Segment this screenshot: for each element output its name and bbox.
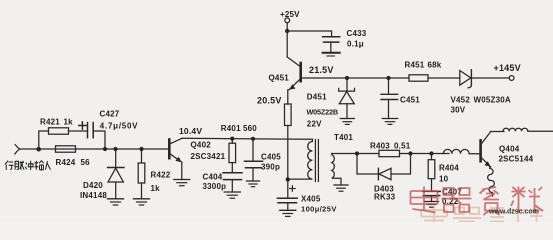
resistor R422 [141,149,143,163]
char 冲 [25,161,33,170]
capacitor C427 [87,123,89,138]
ground (C433) [323,52,340,54]
ground (R422) [134,198,150,200]
node C405 [251,137,255,141]
svg-text:0.1μ: 0.1μ [347,39,364,48]
emitter resistor of Q451 [287,90,289,104]
char 输 [34,161,43,170]
ground (C407) [425,201,439,203]
svg-text:R451: R451 [405,61,425,70]
transistor Q451 [287,57,300,67]
node R422 [139,147,143,151]
svg-text:V452: V452 [451,96,471,105]
node D403 right [408,151,412,155]
capacitor C451 [388,78,390,94]
node input/riser [36,147,41,152]
wire R421 to C427 [69,130,88,132]
diode D420 [115,149,117,168]
resistor R421 [49,128,69,134]
resistor R403 [379,150,400,156]
wire C427 down to rail [93,131,105,149]
capacitor C433 [323,36,340,38]
input connector 行脉冲输入 [15,145,20,154]
terminal +145V [509,76,514,81]
node X405 [286,177,290,181]
svg-text:R404: R404 [439,164,459,173]
svg-text:68k: 68k [428,61,442,70]
wire input rail [20,148,169,150]
char 入 [45,161,50,170]
capacitor C404 [223,172,242,174]
svg-text:1k: 1k [151,184,161,193]
ground (D451) [340,118,354,120]
node C427 riser [103,147,107,151]
wm char2 [442,188,472,212]
svg-text:Q404: Q404 [499,145,520,154]
svg-text:T401: T401 [334,133,353,142]
svg-text:W05Z22B: W05Z22B [307,108,338,117]
wire V452 to +145V [472,77,510,79]
svg-text:C433: C433 [347,29,367,38]
transformer T401 primary [288,139,313,179]
diode V452 [460,71,471,86]
resistor R424 [56,146,76,152]
terminal +25V [285,18,290,23]
wire collector rail of Q402 [182,138,313,139]
capacitor C407 [423,190,440,192]
node D403 left [355,151,359,155]
resistor R401 [231,139,233,144]
svg-text:0.51: 0.51 [394,141,411,150]
ground (C405) [247,180,260,182]
svg-text:56: 56 [81,158,91,167]
node R404 [429,151,433,155]
svg-text:+145V: +145V [494,63,521,73]
ground (Q402 emitter) [174,179,190,181]
inductor (Q404 base) [443,149,479,153]
wm char1 [411,187,438,213]
char 行 [5,161,14,170]
svg-text:R424: R424 [56,158,76,167]
wire +25V to C433 [287,31,331,37]
zener D451 [346,78,348,91]
svg-text:10: 10 [439,175,449,184]
wire +25V node down to Q451 [286,31,288,57]
resistor R451 [409,75,428,81]
svg-text:10.4V: 10.4V [179,126,202,136]
svg-text:C404: C404 [203,173,223,182]
svg-text:100μ/25V: 100μ/25V [301,204,337,213]
capacitor C405 [252,139,254,161]
svg-text:D451: D451 [307,93,327,102]
wire Q451 base rail 21.5V [302,77,409,79]
wire Q404 collector [491,131,505,133]
svg-text:2SC5144: 2SC5144 [499,155,534,164]
wm char3 [480,187,500,215]
svg-text:Q402: Q402 [191,141,212,150]
svg-text:IN4148: IN4148 [80,191,107,200]
svg-text:R403: R403 [370,141,390,150]
wm char4 [511,187,543,214]
resistor R404 [431,154,433,160]
svg-text:3300p: 3300p [203,182,227,191]
watermark row1 电器资料 (red outline) [411,187,544,216]
ground (D420) [108,198,124,200]
svg-text:RK33: RK33 [374,193,396,202]
watermark row2 (faded, behind) [421,206,543,222]
node D420 [113,147,117,151]
svg-text:R421: R421 [40,118,60,127]
svg-text:D420: D420 [83,181,103,190]
svg-text:21.5V: 21.5V [309,65,334,75]
node +25V [285,29,289,33]
svg-text:560: 560 [243,124,257,133]
wire secondary rail to Q404 [332,153,449,155]
inductor (Q404 collector) [503,128,553,131]
ground (C404) [224,191,240,193]
wire R451 to V452 [428,77,459,79]
svg-text:22V: 22V [307,119,322,128]
svg-text:www.dzsc.com: www.dzsc.com [488,209,539,216]
capacitor X405 electrolytic [287,179,289,198]
svg-text:2SC3421: 2SC3421 [191,152,226,161]
svg-text:1k: 1k [64,118,74,127]
node D451 [345,76,349,80]
wire riser to top branch [39,131,49,149]
svg-text:30V: 30V [451,106,466,115]
label 行脉冲输入 (hand-drawn CJK strokes) [5,161,51,170]
svg-text:W05Z30A: W05Z30A [474,96,511,105]
char 脉 [15,161,24,170]
svg-text:R422: R422 [151,171,171,180]
svg-text:X405: X405 [301,195,321,204]
transformer T401 secondary [332,154,341,186]
svg-text:C427: C427 [100,110,120,119]
capacitor C427 plus sign [79,125,86,127]
svg-text:20.5V: 20.5V [257,96,282,106]
node C451 [386,76,390,80]
transformer T401 core [314,140,316,182]
svg-text:C405: C405 [261,153,281,162]
svg-text:R401: R401 [221,124,241,133]
svg-text:C451: C451 [400,96,420,105]
diode D403 bypass loop [357,154,378,175]
transistor Q404 [479,140,482,161]
ground (X405) [280,209,296,211]
node R401 [230,137,234,141]
ground (C451) [382,118,397,120]
svg-text:+25V: +25V [280,10,300,19]
inductor (Q404 emitter) [488,167,495,196]
svg-text:390p: 390p [261,163,280,172]
svg-text:Q451: Q451 [269,74,290,83]
ground (T401 secondary) [334,184,348,186]
svg-text:4.7μ/50V: 4.7μ/50V [100,122,138,131]
transistor Q402 [168,140,171,159]
